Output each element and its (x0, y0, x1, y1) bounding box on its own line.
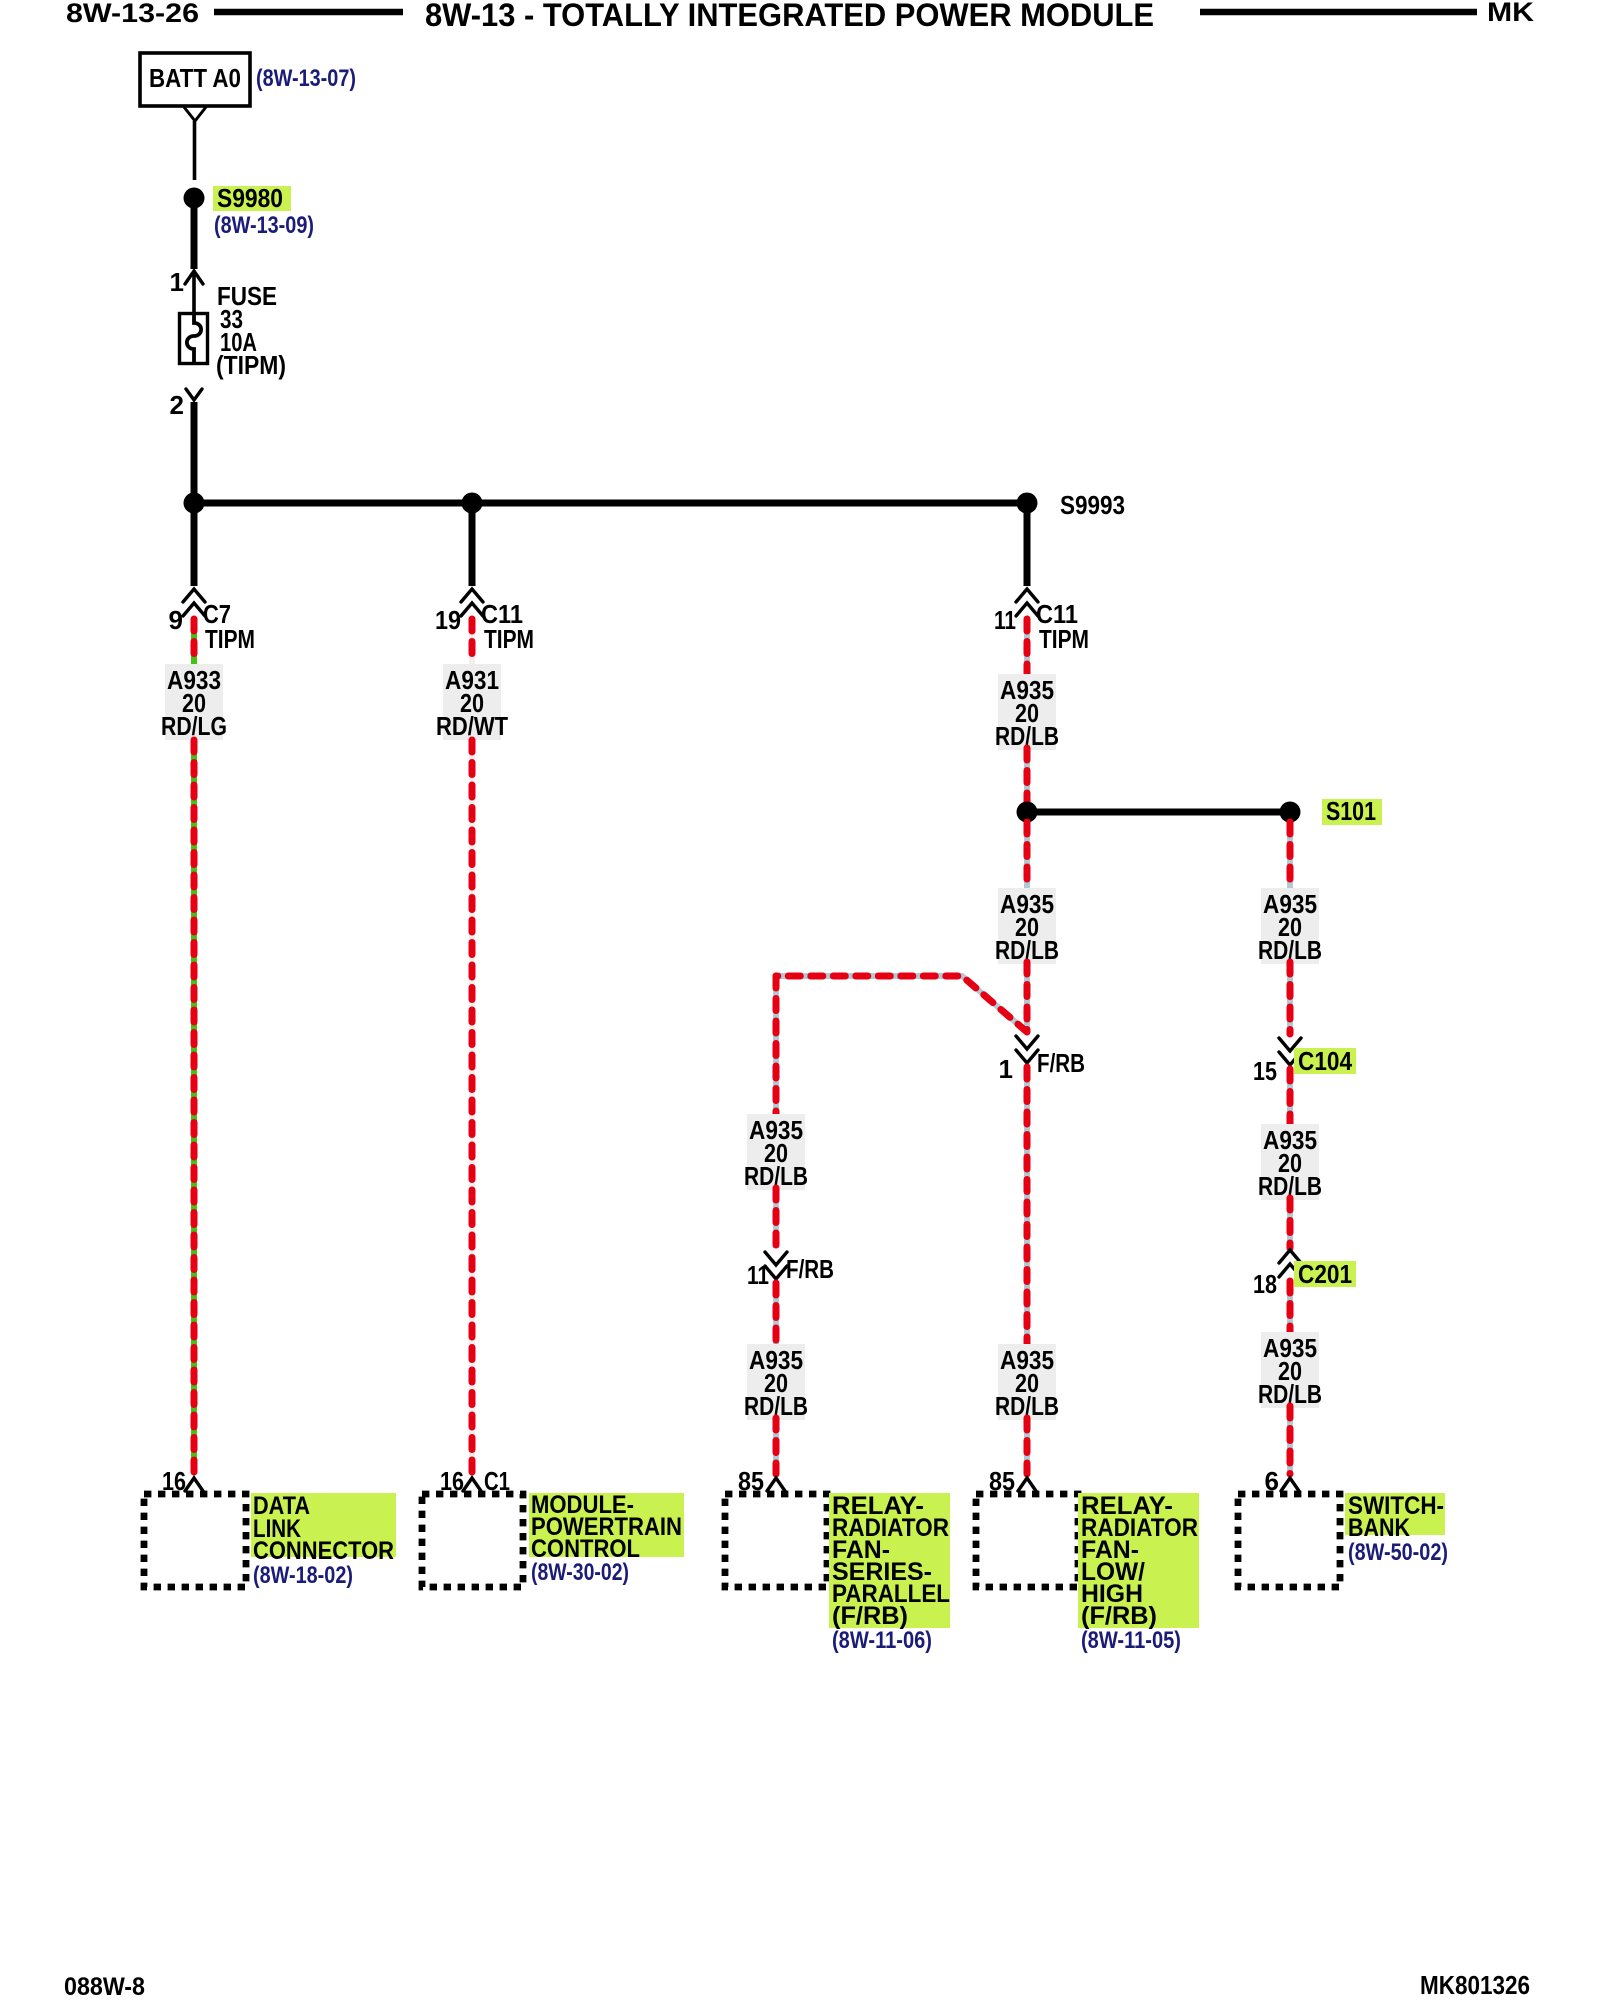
wire A931 20 RD/WT upper (469, 619, 475, 664)
wire branch 3 vertical from jog (773, 976, 779, 1114)
wire label A935 20 RD/LB branch 4 upper (998, 888, 1056, 964)
header rule left (214, 9, 403, 16)
component box RELAY-RADIATOR FAN-SERIES-PARALLEL (725, 1494, 827, 1587)
pin 16 C1 powertrain control module (463, 1478, 481, 1491)
wire label A935 20 RD/LB above S101 (998, 674, 1056, 750)
svg-text:BANK: BANK (1348, 1514, 1410, 1542)
wire label A935 20 RD/LB branch 4 lower (998, 1344, 1056, 1420)
connector V below BATT (184, 107, 206, 121)
svg-text:(8W-13-09): (8W-13-09) (214, 212, 314, 239)
connector TIPM C7 pin 9 (183, 589, 205, 602)
pin 85 relay low/high (1018, 1478, 1036, 1491)
label S101 (1322, 799, 1382, 825)
component box RELAY-RADIATOR FAN-LOW/HIGH (976, 1494, 1078, 1587)
svg-text:8W-13-26: 8W-13-26 (66, 0, 199, 28)
wire S101 down branch 4 (1024, 822, 1030, 888)
svg-text:(8W-11-05): (8W-11-05) (1081, 1627, 1181, 1654)
svg-text:088W-8: 088W-8 (64, 1973, 145, 2000)
pin 85 relay series-parallel (767, 1478, 785, 1491)
svg-text:S9993: S9993 (1060, 490, 1125, 520)
wire BATT to splice S9980 (193, 121, 197, 180)
svg-text:S9980: S9980 (217, 183, 283, 213)
connector C201 pin 18 (1279, 1250, 1301, 1263)
svg-text:F/RB: F/RB (1037, 1048, 1085, 1078)
component box DATA LINK CONNECTOR (144, 1494, 246, 1587)
wire A935 label to S101 junction (1024, 748, 1030, 802)
svg-text:MK: MK (1487, 0, 1535, 27)
wire to switch bank pin 6 (1287, 1406, 1293, 1474)
bus wire S9993 (194, 500, 1027, 507)
pin 16 data link connector (185, 1478, 203, 1491)
junction dot left (184, 493, 205, 514)
wire jog to branch 3 (776, 976, 1027, 1032)
svg-text:9: 9 (169, 605, 183, 635)
svg-text:(8W-50-02): (8W-50-02) (1348, 1539, 1448, 1566)
label RELAY-RADIATOR FAN-SERIES-PARALLEL (F/RB) (829, 1493, 950, 1628)
wire label A935 20 RD/LB branch 3 upper (747, 1114, 805, 1190)
connector C104 pin 15 (1279, 1038, 1301, 1051)
junction dot right S9993 (1017, 493, 1038, 514)
connector F/RB pin 11 (765, 1252, 787, 1265)
wire bus to TIPM C11 pin 11 (1024, 508, 1031, 586)
component box MODULE-POWERTRAIN CONTROL (422, 1494, 523, 1587)
fuse 33 10A TIPM (180, 314, 208, 364)
wire fuse to bus S9993 (191, 402, 198, 500)
svg-text:(F/RB): (F/RB) (1081, 1602, 1157, 1630)
wire to C104 pin 15 (1287, 962, 1293, 1034)
wire F/RB pin11 down (773, 1283, 779, 1344)
connector TIPM C11 pin 19 (461, 589, 483, 602)
svg-text:1: 1 (999, 1054, 1013, 1084)
wire label A931 20 RD/WT (443, 664, 501, 740)
wire A935 20 RD/LB to S101 (1024, 619, 1030, 674)
svg-text:F/RB: F/RB (786, 1254, 834, 1284)
label MODULE-POWERTRAIN CONTROL (529, 1493, 684, 1557)
svg-text:TIPM: TIPM (205, 624, 255, 654)
wire bus to TIPM C11 pin 19 (469, 508, 476, 586)
wire F/RB pin1 down (1024, 1067, 1030, 1344)
pin 6 switch bank (1281, 1478, 1299, 1491)
svg-text:C104: C104 (1298, 1046, 1352, 1076)
splice S9980 (184, 188, 205, 209)
wire to C201 pin 18 (1287, 1198, 1293, 1248)
fuse pin 1 terminal (185, 271, 203, 284)
svg-text:BATT A0: BATT A0 (149, 63, 241, 93)
svg-text:19: 19 (435, 605, 461, 635)
svg-text:18: 18 (1253, 1269, 1277, 1299)
wire label A935 20 RD/LB branch 5 lower (1261, 1332, 1319, 1408)
wire A933 20 RD/LG upper (191, 619, 197, 664)
wire C201 to label (1287, 1281, 1293, 1332)
svg-text:C201: C201 (1298, 1259, 1352, 1289)
junction dot S101 right (1280, 802, 1301, 823)
wire S101 down branch 5 (1287, 822, 1293, 888)
fuse pin 2 terminal (186, 389, 202, 400)
svg-text:(8W-13-07): (8W-13-07) (256, 65, 356, 92)
junction dot middle (462, 493, 483, 514)
wire S9980 to fuse pin 1 (191, 208, 198, 269)
wire to relay series-parallel pin 85 (773, 1418, 779, 1474)
svg-text:RD/WT: RD/WT (436, 711, 508, 741)
svg-text:8W-13 - TOTALLY INTEGRATED POW: 8W-13 - TOTALLY INTEGRATED POWER MODULE (425, 0, 1154, 33)
wire label A935 20 RD/LB branch 3 lower (747, 1344, 805, 1420)
wire A933 20 RD/LG lower (191, 740, 197, 1474)
svg-text:S101: S101 (1326, 796, 1376, 826)
label DATA LINK CONNECTOR (251, 1493, 396, 1557)
svg-text:2: 2 (170, 390, 184, 420)
svg-text:CONNECTOR: CONNECTOR (253, 1537, 394, 1565)
wire label A935 20 RD/LB branch 5 upper (1261, 888, 1319, 964)
wire bus to TIPM C7 pin 9 (191, 508, 198, 586)
header rule right (1200, 9, 1477, 16)
wire label A935 20 RD/LB branch 5 middle (1261, 1124, 1319, 1200)
svg-text:(8W-30-02): (8W-30-02) (531, 1559, 629, 1586)
label SWITCH-BANK (1345, 1493, 1445, 1535)
power source box BATT A0 (140, 53, 250, 106)
svg-text:TIPM: TIPM (484, 624, 534, 654)
svg-text:11: 11 (747, 1260, 769, 1290)
svg-text:(8W-11-06): (8W-11-06) (832, 1627, 932, 1654)
bus wire S101 (1027, 809, 1290, 816)
wire label A933 20 RD/LG (165, 664, 223, 740)
svg-text:TIPM: TIPM (1039, 624, 1089, 654)
wire to F/RB junction (1024, 962, 1030, 1030)
svg-text:(TIPM): (TIPM) (216, 350, 286, 380)
svg-text:(8W-18-02): (8W-18-02) (253, 1562, 353, 1589)
junction dot S101 left (1017, 802, 1038, 823)
svg-text:MK801326: MK801326 (1420, 1970, 1530, 2000)
wire to relay low/high pin 85 (1024, 1418, 1030, 1474)
wire C104 to label (1287, 1069, 1293, 1124)
svg-text:(F/RB): (F/RB) (832, 1602, 908, 1630)
wire A931 20 RD/WT lower (469, 740, 475, 1474)
component box SWITCH-BANK (1238, 1494, 1340, 1587)
svg-text:11: 11 (994, 605, 1016, 635)
svg-text:15: 15 (1253, 1056, 1277, 1086)
connector TIPM C11 pin 11 (1016, 589, 1038, 602)
wire branch 3 to F/RB pin 11 (773, 1188, 779, 1248)
svg-text:1: 1 (170, 267, 184, 297)
connector F/RB pin 1 (1016, 1036, 1038, 1049)
label RELAY-RADIATOR FAN-LOW/HIGH (F/RB) (1078, 1493, 1199, 1628)
